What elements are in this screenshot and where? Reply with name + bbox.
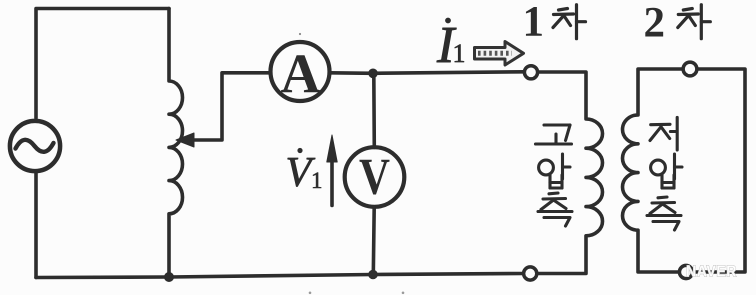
node J1 (369, 69, 378, 78)
svg-text:1: 1 (453, 39, 466, 68)
primary winding T1-HV (537, 72, 603, 274)
svg-text:NAVER: NAVER (686, 264, 737, 281)
svg-text:1: 1 (311, 168, 323, 193)
ac source G1 (10, 121, 60, 171)
wire source bottom (34, 172, 38, 278)
wire bottom bus (36, 274, 524, 278)
wire ammeter to node J1 (330, 71, 373, 75)
voltmeter V1 (345, 147, 405, 207)
label cha (secondary) (678, 5, 711, 39)
terminal secondary bottom (679, 265, 692, 278)
wire node J1 to primary terminal (373, 72, 525, 74)
label cha (primary) (553, 5, 586, 39)
cheuk (538, 193, 572, 226)
node J2 (369, 270, 378, 279)
label I1 (436, 17, 466, 74)
voltage arrow V1 (327, 135, 337, 206)
wire tap to ammeter (188, 73, 270, 140)
svg-text:V: V (359, 149, 390, 206)
terminal primary bottom (524, 267, 537, 280)
svg-text:2: 2 (644, 0, 666, 46)
wire top-left loop (36, 9, 169, 119)
current arrow I1 (block arrow) (475, 42, 524, 66)
node J3 coil to bottom bus (165, 273, 174, 282)
ap (651, 154, 682, 188)
secondary winding T1-LV (623, 69, 746, 272)
scan speck above ammeter (299, 33, 301, 35)
go (536, 125, 572, 144)
cheuk (647, 197, 681, 230)
label go-ap-cheuk (HV side) (536, 125, 573, 226)
jeo (650, 117, 677, 150)
terminal primary top (524, 66, 537, 79)
label jeo-ap-cheuk (LV side) (647, 117, 682, 230)
terminal secondary top (683, 62, 697, 76)
svg-text:A: A (281, 43, 322, 105)
scan speck bottom left (309, 292, 312, 295)
tap arrowhead (176, 133, 194, 147)
autotransformer coil L1 (169, 9, 183, 278)
ammeter A1 (271, 42, 330, 105)
wire node J1 down to voltmeter (372, 73, 376, 147)
svg-text:1: 1 (523, 0, 545, 46)
label V1 (286, 148, 323, 196)
wire voltmeter to bottom node J2 (371, 207, 376, 275)
scan speck bottom mid (402, 292, 405, 295)
ap (539, 154, 570, 188)
